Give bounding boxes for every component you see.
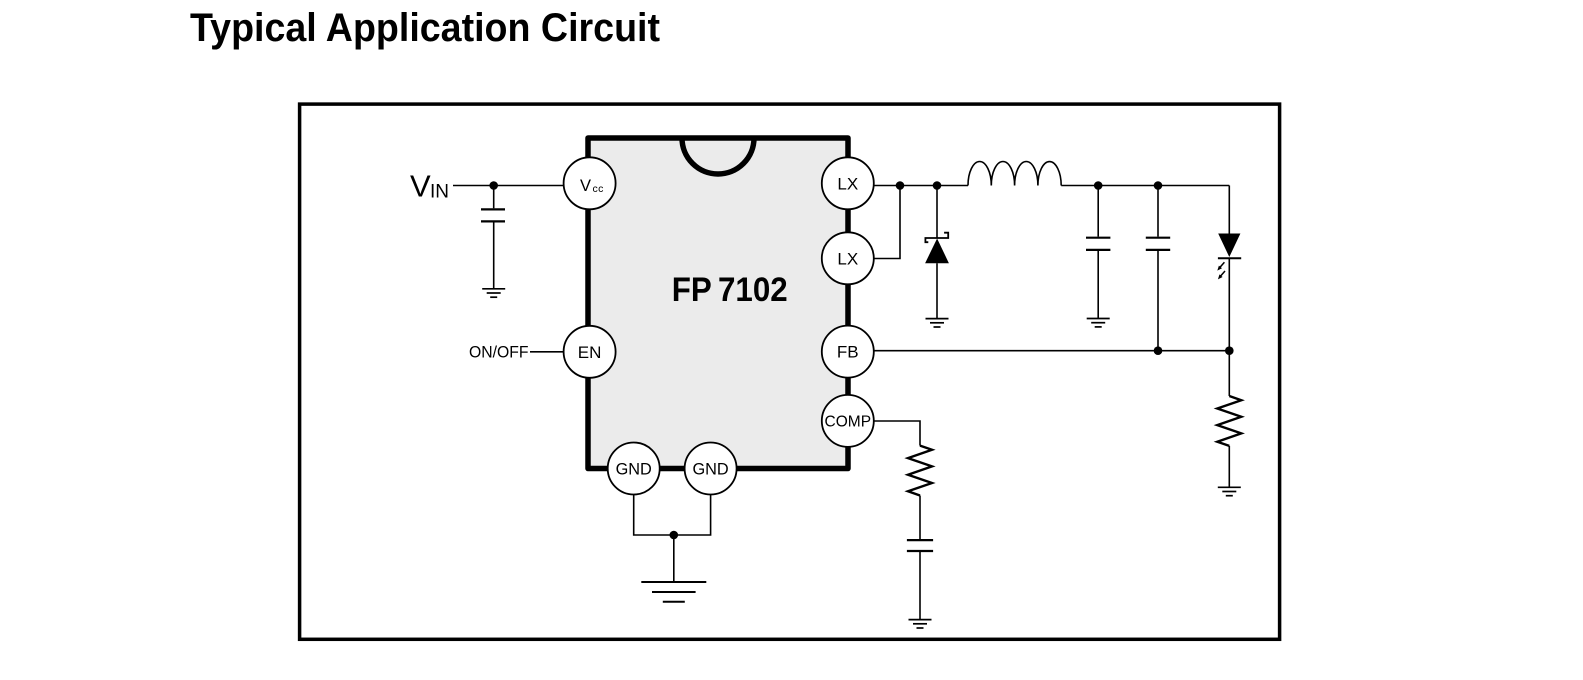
pin LX2 — [822, 232, 874, 284]
pin COMP — [822, 395, 874, 447]
capacitor COUT2 — [1146, 238, 1170, 250]
wire COUT1 to ground — [1097, 251, 1099, 319]
wire FB net — [872, 350, 1229, 352]
svg-text:GND: GND — [693, 461, 729, 479]
svg-text:V: V — [410, 168, 431, 203]
wire R2 to C2 — [919, 496, 921, 540]
capacitor COUT1 — [1086, 238, 1110, 250]
svg-text:FB: FB — [837, 343, 859, 362]
IC U1 notch — [682, 138, 754, 174]
svg-text:ON/OFF: ON/OFF — [469, 343, 529, 361]
wire C2 to ground — [919, 552, 921, 620]
wire LED to FB net — [1228, 258, 1230, 396]
wire ON/OFF to EN — [530, 351, 565, 353]
wire node B to diode D1 — [936, 186, 938, 239]
pin VCC — [564, 157, 616, 209]
wire COUT2 to FB net — [1157, 251, 1159, 351]
svg-text:EN: EN — [578, 343, 602, 362]
wire junction to CIN — [493, 186, 495, 209]
wire to COUT1 — [1097, 186, 1099, 237]
wire to COUT2 — [1157, 186, 1159, 237]
diode D1 schottky cathode bar — [925, 233, 948, 243]
ground (main) — [641, 582, 706, 602]
wire L1 to LED branch — [1061, 185, 1229, 187]
wire R1 to ground — [1228, 446, 1230, 487]
ground (CIN) — [482, 289, 505, 297]
capacitor CIN — [481, 209, 505, 221]
svg-text:GND: GND — [616, 461, 652, 479]
LED D2 triangle — [1218, 234, 1240, 258]
LED D2 cathode bar — [1218, 257, 1241, 259]
border frame — [300, 104, 1280, 639]
LED D2 light arrow 2 — [1218, 271, 1225, 279]
wire LX1 to inductor — [872, 185, 968, 187]
junction FB/COUT2 — [1154, 346, 1163, 355]
junction GND — [670, 531, 679, 540]
inductor L1 — [968, 161, 1061, 185]
pin LX1 — [822, 157, 874, 209]
wire COMP to R2 — [874, 421, 920, 446]
svg-text:V: V — [580, 177, 591, 195]
svg-text:LX: LX — [837, 249, 858, 268]
resistor R1 — [1217, 396, 1241, 446]
capacitor C2 — [907, 540, 933, 551]
ground (C2) — [909, 620, 932, 628]
ground (R1) — [1218, 487, 1241, 495]
resistor R2 — [908, 446, 932, 496]
svg-text:IN: IN — [430, 182, 449, 203]
pin EN — [564, 326, 616, 378]
svg-text:LX: LX — [837, 174, 858, 193]
wire LED branch down — [1228, 186, 1230, 234]
diode D1 triangle — [925, 239, 949, 264]
junction COUT1 — [1094, 181, 1103, 190]
pin GND2 — [685, 443, 737, 495]
wire CIN to ground — [493, 222, 495, 288]
ground (D1) — [926, 319, 949, 327]
LED D2 light arrow 1 — [1217, 262, 1224, 270]
svg-text:COMP: COMP — [825, 414, 872, 431]
junction LX node B (diode) — [933, 181, 942, 190]
wire VIN to VCC — [453, 185, 565, 187]
pin FB — [822, 326, 874, 378]
junction FB/LED — [1225, 346, 1234, 355]
wire LX2 to node A — [872, 186, 900, 259]
ground (COUT1) — [1087, 319, 1110, 327]
svg-text:cc: cc — [593, 183, 604, 195]
svg-text:Typical Application Circuit: Typical Application Circuit — [190, 6, 660, 50]
junction VIN/CIN — [489, 181, 498, 190]
junction COUT2 — [1154, 181, 1163, 190]
wire D1 to ground — [936, 263, 938, 318]
pin GND1 — [608, 443, 660, 495]
IC U1 body — [588, 138, 848, 469]
svg-text:FP 7102: FP 7102 — [672, 271, 788, 309]
wire GND1 down — [634, 494, 711, 535]
wire GND junction to ground — [673, 535, 675, 582]
junction LX node A — [896, 181, 905, 190]
